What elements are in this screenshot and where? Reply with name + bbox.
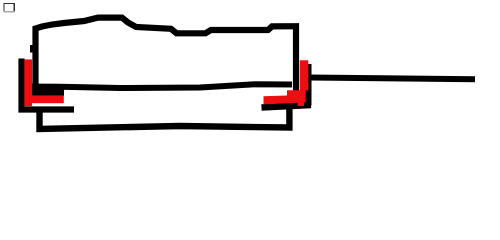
small square marker top-left bbox=[3, 3, 15, 13]
slab outline: left edge, wavy top edge, right edge bbox=[36, 18, 297, 100]
right leg vertical bbox=[306, 64, 312, 106]
base U outline bbox=[40, 108, 290, 129]
left red vertical bar bbox=[24, 59, 32, 106]
slab bottom edge bbox=[24, 84, 292, 88]
right red bar bottom blob bbox=[298, 100, 305, 107]
right red foot bbox=[264, 90, 306, 104]
left red foot bbox=[31, 95, 64, 103]
left leg foot (short black line) bbox=[20, 89, 64, 96]
left edge bump bbox=[30, 45, 36, 53]
right red vertical bar (over leg top part) bbox=[300, 60, 309, 90]
long pole to the right bbox=[309, 78, 475, 80]
lower-right horizontal bbox=[262, 105, 312, 108]
left leg vertical + lower-left horizontal bbox=[22, 59, 75, 110]
